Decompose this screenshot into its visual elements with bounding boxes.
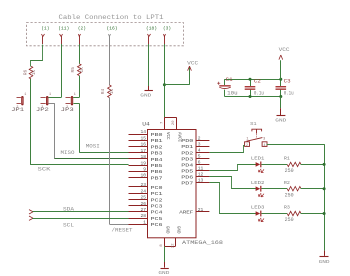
svg-text:PC0: PC0 bbox=[151, 185, 163, 191]
svg-text:6: 6 bbox=[198, 160, 201, 166]
svg-text:PD2: PD2 bbox=[181, 150, 193, 156]
svg-text:27: 27 bbox=[140, 207, 146, 213]
svg-text:15: 15 bbox=[140, 135, 146, 141]
svg-text:PB5: PB5 bbox=[151, 163, 163, 169]
svg-text:LED1: LED1 bbox=[251, 156, 265, 162]
svg-text:PB7: PB7 bbox=[151, 175, 163, 181]
svg-text:U4: U4 bbox=[142, 121, 150, 127]
svg-text:0.1u: 0.1u bbox=[254, 91, 264, 97]
svg-text:20: 20 bbox=[172, 120, 176, 125]
svg-text:MISO: MISO bbox=[61, 150, 75, 156]
svg-text:1: 1 bbox=[74, 93, 76, 97]
svg-text:0.1u: 0.1u bbox=[284, 91, 294, 97]
svg-text:PC2: PC2 bbox=[151, 197, 163, 203]
svg-text:VCC: VCC bbox=[279, 47, 290, 53]
svg-text:MOSI: MOSI bbox=[86, 143, 100, 149]
svg-text:C2: C2 bbox=[254, 78, 261, 84]
svg-text:21: 21 bbox=[198, 207, 204, 213]
svg-text:PB3: PB3 bbox=[151, 151, 163, 157]
svg-text:/RESET: /RESET bbox=[112, 227, 133, 233]
svg-text:AREF: AREF bbox=[179, 210, 193, 216]
svg-text:R5: R5 bbox=[71, 67, 76, 73]
svg-text:PB2: PB2 bbox=[151, 144, 163, 150]
svg-text:JP1: JP1 bbox=[11, 107, 24, 113]
svg-text:28: 28 bbox=[140, 213, 146, 219]
svg-text:SCL: SCL bbox=[63, 223, 74, 229]
svg-text:3: 3 bbox=[198, 142, 201, 148]
svg-text:VCC: VCC bbox=[187, 60, 198, 66]
svg-text:GND: GND bbox=[140, 92, 151, 98]
svg-text:10: 10 bbox=[140, 173, 146, 179]
svg-text:PD3: PD3 bbox=[181, 156, 193, 162]
svg-text:LED3: LED3 bbox=[251, 205, 265, 211]
svg-text:24: 24 bbox=[140, 188, 146, 194]
svg-text:PD4: PD4 bbox=[181, 162, 193, 168]
svg-text:17: 17 bbox=[140, 148, 146, 154]
svg-text:PB4: PB4 bbox=[151, 157, 163, 163]
svg-text:PD7: PD7 bbox=[181, 180, 193, 186]
svg-text:10u: 10u bbox=[227, 90, 238, 96]
svg-text:GND: GND bbox=[164, 226, 168, 234]
svg-text:(11): (11) bbox=[58, 25, 69, 31]
svg-text:R2: R2 bbox=[284, 180, 290, 186]
svg-text:1: 1 bbox=[49, 93, 51, 97]
svg-text:(2): (2) bbox=[78, 25, 86, 31]
svg-text:PB0: PB0 bbox=[151, 132, 163, 138]
svg-text:1: 1 bbox=[143, 219, 146, 225]
svg-text:AVCC: AVCC bbox=[176, 132, 180, 143]
svg-text:PD1: PD1 bbox=[181, 144, 193, 150]
svg-text:19: 19 bbox=[140, 160, 146, 166]
svg-text:SCK: SCK bbox=[38, 166, 51, 172]
svg-text:250: 250 bbox=[285, 217, 294, 223]
svg-text:4: 4 bbox=[198, 148, 201, 154]
svg-text:PC4: PC4 bbox=[151, 210, 163, 216]
svg-text:(16): (16) bbox=[107, 25, 118, 31]
svg-text:4: 4 bbox=[264, 143, 266, 147]
svg-text:13: 13 bbox=[198, 178, 204, 184]
svg-text:GND: GND bbox=[275, 117, 286, 123]
svg-text:2: 2 bbox=[246, 143, 248, 147]
svg-text:9: 9 bbox=[143, 167, 146, 173]
svg-text:ATMEGA_168: ATMEGA_168 bbox=[182, 240, 223, 246]
svg-text:18: 18 bbox=[140, 154, 146, 160]
svg-text:7: 7 bbox=[161, 122, 165, 124]
svg-text:JP3: JP3 bbox=[61, 107, 74, 113]
svg-text:25: 25 bbox=[140, 195, 146, 201]
svg-text:23: 23 bbox=[140, 182, 146, 188]
svg-text:GND: GND bbox=[176, 226, 180, 234]
svg-text:2: 2 bbox=[198, 136, 201, 142]
svg-text:16: 16 bbox=[140, 142, 146, 148]
svg-text:1K: 1K bbox=[110, 89, 115, 95]
svg-text:1K: 1K bbox=[32, 70, 37, 76]
svg-text:R4: R4 bbox=[101, 89, 106, 95]
svg-text:R6: R6 bbox=[24, 70, 29, 76]
svg-text:(3): (3) bbox=[163, 25, 171, 31]
svg-text:Cable Connection to LPT1: Cable Connection to LPT1 bbox=[59, 14, 164, 21]
svg-text:1: 1 bbox=[24, 93, 26, 97]
svg-text:26: 26 bbox=[140, 201, 146, 207]
svg-text:PC1: PC1 bbox=[151, 191, 163, 197]
svg-text:GND: GND bbox=[158, 270, 169, 276]
svg-text:1K: 1K bbox=[80, 67, 85, 73]
svg-text:SDA: SDA bbox=[63, 207, 74, 213]
svg-text:R1: R1 bbox=[284, 156, 290, 162]
svg-text:R3: R3 bbox=[284, 205, 290, 211]
svg-text:PC3: PC3 bbox=[151, 204, 163, 210]
svg-text:PC5: PC5 bbox=[151, 216, 163, 222]
svg-text:5: 5 bbox=[198, 154, 201, 160]
svg-text:C1: C1 bbox=[226, 77, 233, 83]
svg-text:JP2: JP2 bbox=[36, 107, 49, 113]
svg-text:22: 22 bbox=[172, 243, 176, 248]
svg-text:GND: GND bbox=[319, 259, 330, 265]
svg-text:PB6: PB6 bbox=[151, 169, 163, 175]
svg-text:PB1: PB1 bbox=[151, 138, 163, 144]
svg-text:S1: S1 bbox=[250, 121, 257, 127]
svg-text:LED2: LED2 bbox=[251, 180, 265, 186]
svg-text:11: 11 bbox=[198, 166, 204, 172]
svg-text:C3: C3 bbox=[284, 78, 291, 84]
svg-text:250: 250 bbox=[285, 192, 294, 198]
svg-text:PC6: PC6 bbox=[151, 222, 163, 228]
svg-text:PD0: PD0 bbox=[181, 138, 193, 144]
svg-text:12: 12 bbox=[198, 172, 204, 178]
svg-text:14: 14 bbox=[140, 129, 146, 135]
svg-text:(1): (1) bbox=[41, 25, 49, 31]
svg-text:250: 250 bbox=[285, 168, 294, 174]
svg-text:VCC: VCC bbox=[165, 132, 169, 140]
svg-text:PD6: PD6 bbox=[181, 174, 193, 180]
svg-text:(18): (18) bbox=[146, 25, 157, 31]
svg-text:PD5: PD5 bbox=[181, 168, 193, 174]
